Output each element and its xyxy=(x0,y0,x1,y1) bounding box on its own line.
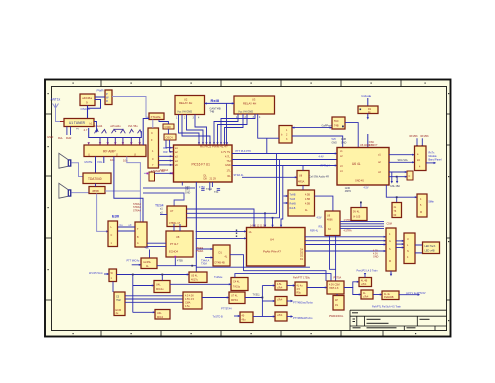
junction dots PA mesh xyxy=(264,212,273,218)
svg-text:4017u: 4017u xyxy=(191,279,199,282)
wire W1 to audio rail xyxy=(117,274,190,276)
svg-text:GND: GND xyxy=(185,191,191,194)
diode pair D5 D6 xyxy=(130,129,142,133)
svg-text:PTT4BGradTurbo: PTT4BGradTurbo xyxy=(293,301,313,304)
wires relay K1 pins to MCU xyxy=(179,115,207,146)
wire U29 out to column xyxy=(253,316,262,318)
wire left rail junction xyxy=(144,172,149,174)
audio amp U4 TDA7040 xyxy=(83,173,111,184)
svg-text:PTT MIC4u: PTT MIC4u xyxy=(127,260,140,263)
svg-text:Cell SW Audio 4R: Cell SW Audio 4R xyxy=(309,176,329,179)
svg-text:PIC16 F7 U1: PIC16 F7 U1 xyxy=(192,163,211,167)
capacitor C4 box xyxy=(149,172,155,181)
wire osc to tuner xyxy=(87,106,89,119)
svg-text:PWM4ODUL: PWM4ODUL xyxy=(329,315,344,318)
relay K1 xyxy=(175,96,205,115)
zone tick marks left xyxy=(45,114,52,300)
diode pair D3 D4 xyxy=(112,129,126,133)
svg-text:GND: GND xyxy=(47,135,53,139)
wire buffer to VCO xyxy=(292,127,332,129)
wire purple rails under MCU xyxy=(143,187,195,189)
svg-text:GND: GND xyxy=(341,142,347,145)
divider U11 xyxy=(288,190,315,216)
wire Q4 out xyxy=(399,294,418,296)
wires into PA left pins xyxy=(196,231,247,238)
pin arrowheads on RF amp xyxy=(88,142,141,145)
svg-text:U4: U4 xyxy=(270,238,274,242)
wire TA31 top to bus xyxy=(235,274,331,281)
junction dot xyxy=(147,173,149,175)
svg-text:DT4B 4B: DT4B 4B xyxy=(215,262,225,265)
svg-text:4R5A: 4R5A xyxy=(298,181,305,184)
svg-text:T4B: T4B xyxy=(210,110,215,114)
svg-text:mic45L: mic45L xyxy=(143,261,152,264)
wires PLL right to C block xyxy=(389,172,407,177)
gate G2 xyxy=(275,297,287,306)
wire antenna to tuner xyxy=(56,109,64,122)
filter U5 xyxy=(89,187,105,194)
svg-text:M: M xyxy=(389,260,391,263)
regulator U31 xyxy=(327,281,344,294)
wire U-osc to pwr xyxy=(95,96,105,98)
svg-text:14 13 12 11 10: 14 13 12 11 10 xyxy=(250,225,266,228)
pin arrows tuner left xyxy=(60,121,64,123)
wire speaker2 to U4 xyxy=(71,192,89,194)
svg-text:RxIII: RxIII xyxy=(211,98,219,103)
power switch Q4 xyxy=(382,291,399,300)
wire vertical drop C to PA xyxy=(281,166,283,228)
svg-text:Vcc VH GND: Vcc VH GND xyxy=(177,110,192,114)
crystal Y1 box xyxy=(149,113,164,120)
svg-text:R5u: R5u xyxy=(297,292,302,295)
wire module out xyxy=(426,162,434,164)
svg-text:21 29: 21 29 xyxy=(210,178,217,181)
svg-text:RFVRb: RFVRb xyxy=(410,135,419,138)
svg-text:R5R 4L: R5R 4L xyxy=(310,230,319,233)
svg-text:R5L: R5L xyxy=(319,226,324,229)
svg-text:4Bu: 4Bu xyxy=(145,247,150,250)
svg-text:u7b4: u7b4 xyxy=(277,299,283,302)
speaker LS1 xyxy=(59,153,68,168)
svg-text:TxSTD B: TxSTD B xyxy=(213,315,223,318)
compressor U26 xyxy=(183,292,202,309)
wire driver bottom stub xyxy=(390,271,392,275)
svg-text:7M2: 7M2 xyxy=(116,299,121,302)
svg-text:U4L: U4L xyxy=(156,284,161,287)
svg-text:STRA4: STRA4 xyxy=(160,169,169,172)
wire U23 top pin xyxy=(161,275,163,281)
svg-text:U4L: U4L xyxy=(157,312,162,315)
svg-text:U6 4L: U6 4L xyxy=(352,162,361,166)
buffer U13 xyxy=(279,126,292,144)
wire U5 down to E30 box xyxy=(97,194,107,232)
svg-text:U5 4L: U5 4L xyxy=(191,275,198,278)
wire U30 to U31 xyxy=(307,287,327,289)
svg-text:U7 4L: U7 4L xyxy=(231,295,238,298)
svg-text:u7b4: u7b4 xyxy=(277,314,283,317)
regulator U20 Vr105 xyxy=(351,208,367,221)
regulator U17 7660 xyxy=(392,203,402,218)
wire MCU highway 3 xyxy=(232,165,361,167)
svg-text:Include: Include xyxy=(362,94,372,98)
wires PLL right to RxTx module xyxy=(389,155,415,163)
svg-text:RFPLL4: RFPLL4 xyxy=(321,165,331,168)
inner border frame xyxy=(52,87,447,331)
resistor R2 box xyxy=(358,106,378,114)
wire osc feedback loop xyxy=(88,100,101,109)
relay driver U21 tall box xyxy=(404,233,415,264)
regulator U30 xyxy=(295,282,307,296)
svg-text:U: U xyxy=(407,238,409,241)
svg-text:GND: GND xyxy=(332,142,338,145)
wire vertical drop A to PA xyxy=(265,154,277,228)
mic amp U22 xyxy=(141,258,157,269)
junction dot xyxy=(172,172,174,174)
wire limiter to switch column xyxy=(245,297,262,299)
svg-text:U7: U7 xyxy=(170,209,174,213)
svg-text:PaAb PAe A?: PaAb PAe A? xyxy=(263,250,281,254)
svg-text:4.5V: 4.5V xyxy=(364,187,369,190)
gate output arrows xyxy=(287,286,295,317)
wire MCU to audio switch xyxy=(242,176,297,178)
svg-text:4V1 55u: 4V1 55u xyxy=(128,124,138,128)
filter FL1 tall box xyxy=(135,222,147,247)
modulator U9 DT xyxy=(213,245,230,266)
svg-text:U8: U8 xyxy=(176,235,180,239)
wire into W1 xyxy=(104,273,109,275)
svg-text:2A: 2A xyxy=(417,159,420,162)
wires 4066 bottom xyxy=(330,236,336,282)
svg-text:P: P xyxy=(106,92,108,96)
svg-text:TX511: TX511 xyxy=(253,294,261,297)
wires column to gates xyxy=(262,286,275,317)
svg-text:4S: 4S xyxy=(335,304,338,307)
wire TDA to U5 xyxy=(95,184,97,187)
svg-text:4066: 4066 xyxy=(327,219,333,222)
svg-text:4.5B: 4.5B xyxy=(305,194,310,197)
svg-text:Rx PIC5 PWM 4L 4?: Rx PIC5 PWM 4L 4? xyxy=(200,145,228,149)
svg-text:u47uH4u: u47uH4u xyxy=(110,124,121,128)
svg-text:4.7V 7S: 4.7V 7S xyxy=(221,151,230,154)
svg-text:TX4A: TX4A xyxy=(206,188,212,191)
wires U7 right to PA top pins xyxy=(187,209,273,228)
wires OSC to MCU xyxy=(166,140,174,148)
wire stubs to ground under C5 wires xyxy=(392,172,397,182)
vco U14 xyxy=(332,117,345,129)
svg-text:RxR: RxR xyxy=(66,136,71,140)
zone number dots xyxy=(48,83,450,335)
svg-text:OSC4: OSC4 xyxy=(166,136,174,140)
svg-text:C: C xyxy=(111,234,113,237)
microcontroller U1 PIC16F73 xyxy=(174,145,233,182)
wire U10 top xyxy=(302,166,304,171)
svg-text:RxLB: RxLB xyxy=(290,207,296,210)
svg-text:4TB4L 17: 4TB4L 17 xyxy=(169,221,181,225)
wires to DT box xyxy=(196,249,213,258)
modulator U32 xyxy=(333,296,344,311)
svg-text:4558: 4558 xyxy=(92,189,99,193)
U8 bottom pin xyxy=(174,257,176,266)
wire switch column vertical xyxy=(261,286,263,317)
svg-text:u7b4: u7b4 xyxy=(361,283,367,286)
tuner U2 xyxy=(64,119,94,127)
preemphasis U23 xyxy=(154,281,170,293)
svg-text:PwrUP2 L4.5 Train: PwrUP2 L4.5 Train xyxy=(357,270,379,273)
capacitor C1 box xyxy=(105,90,112,105)
svg-text:C4 4L: C4 4L xyxy=(233,281,240,284)
svg-text:GNL 4Bd: GNL 4Bd xyxy=(390,185,400,188)
wire into mic amp xyxy=(132,264,141,266)
op-amp U10 LM358 xyxy=(297,171,309,186)
wire include down xyxy=(367,98,369,106)
wire tuner out to RF amp xyxy=(94,122,97,132)
LED board xyxy=(423,242,440,254)
svg-text:4.5B: 4.5B xyxy=(305,198,310,201)
svg-text:7805 4.8: 7805 4.8 xyxy=(329,287,339,290)
svg-text:MIC4u: MIC4u xyxy=(156,288,164,291)
svg-text:STRA 4L: STRA 4L xyxy=(234,174,245,177)
oscillator box xyxy=(164,134,176,140)
svg-text:RELAY 4H: RELAY 4H xyxy=(243,102,256,106)
svg-text:4.7: 4.7 xyxy=(84,128,88,132)
svg-text:4.5TRA: 4.5TRA xyxy=(344,230,353,233)
wire DT bus to reg xyxy=(244,271,327,281)
wires L1 to FL1 xyxy=(118,227,135,231)
svg-text:ECHO4: ECHO4 xyxy=(169,250,178,254)
diode pair D1 D2 xyxy=(95,129,107,133)
zone tick marks right xyxy=(447,114,451,300)
IF filter U6 tall box xyxy=(148,128,159,168)
wire Vr105 top xyxy=(360,202,362,208)
wire branch to 7660 xyxy=(396,197,398,202)
wires RFVRb into module xyxy=(417,138,422,146)
svg-text:4MHz: 4MHz xyxy=(345,190,352,193)
wire RF amp pin to TBA purple xyxy=(127,157,141,223)
svg-text:PaAM4B: PaAM4B xyxy=(384,296,394,299)
wire preemph to TA31 xyxy=(170,283,231,285)
svg-text:46u: 46u xyxy=(242,319,247,322)
svg-text:PWRA: PWRA xyxy=(196,250,204,253)
driver Q2 xyxy=(359,278,372,287)
counter U25 4017 xyxy=(189,272,207,282)
svg-text:N: N xyxy=(407,250,409,253)
pll U15 LMX1600 xyxy=(337,148,389,186)
svg-text:PTT PLK PTK: PTT PLK PTK xyxy=(236,150,252,153)
svg-text:PTT5TA4: PTT5TA4 xyxy=(221,308,232,311)
wire R2 down arrow xyxy=(367,114,369,119)
svg-text:u4046a: u4046a xyxy=(82,96,92,100)
wire mic out along bottom xyxy=(157,265,196,267)
wire xtal left to RF amp xyxy=(143,119,149,146)
svg-text:10u: 10u xyxy=(123,159,128,163)
svg-text:p4.5 V ke4PTL5V: p4.5 V ke4PTL5V xyxy=(406,292,426,295)
wire U7 left stub xyxy=(160,214,167,216)
capacitor C5 box xyxy=(407,171,413,180)
resistor R1 box xyxy=(80,94,95,106)
wire W1 down to ECM xyxy=(112,282,114,293)
wires relay K2 pins to MCU xyxy=(214,114,267,145)
wire PLL bottom to 5Min box xyxy=(386,185,417,197)
wires bus to RF amp top pins xyxy=(100,138,140,145)
wire diode bus xyxy=(89,128,142,138)
capacitor C2 box xyxy=(163,124,174,129)
svg-text:W1 R5 5mm: W1 R5 5mm xyxy=(89,272,103,275)
wire MCU to PLL highway 1 xyxy=(232,153,337,155)
svg-text:P5T5A: P5T5A xyxy=(334,277,342,280)
wire MCU to PLL highway 2 xyxy=(232,159,337,161)
svg-text:OSC8L: OSC8L xyxy=(81,107,91,111)
svg-text:RF AMP: RF AMP xyxy=(103,149,116,153)
svg-text:PaAPTL Pal 5uA 4.5 Train: PaAPTL Pal 5uA 4.5 Train xyxy=(372,305,402,308)
svg-text:PT 4L7: PT 4L7 xyxy=(170,242,179,246)
svg-text:17L: 17L xyxy=(227,170,232,173)
svg-text:GaPPwr4: GaPPwr4 xyxy=(322,125,333,128)
svg-text:GND 4S: GND 4S xyxy=(355,180,364,183)
svg-text:E30: E30 xyxy=(112,214,120,219)
wires U6 right to MCU xyxy=(159,156,174,165)
wire pwr rail (purple) xyxy=(112,97,149,118)
svg-text:5V0: 5V0 xyxy=(334,120,339,123)
wire relay drop to highway xyxy=(266,138,268,153)
svg-text:TA31u: TA31u xyxy=(233,286,241,289)
analog switch U19 4066 xyxy=(325,211,340,236)
rf module U16 RxTx xyxy=(415,146,427,171)
svg-text:PWR: PWR xyxy=(97,89,105,93)
amplifier U3 RF AMP xyxy=(84,145,146,157)
wire vertical drop B to PA xyxy=(273,160,280,228)
svg-text:1750: 1750 xyxy=(199,185,205,189)
limiter U27 xyxy=(229,292,245,304)
wire speaker1 to TDA xyxy=(71,163,83,177)
svg-text:7SJ: 7SJ xyxy=(227,160,232,163)
wire TCXO into PLL xyxy=(367,134,369,148)
svg-text:C: C xyxy=(151,131,153,135)
svg-text:RxL: RxL xyxy=(58,136,63,140)
modulator U28 TA31 xyxy=(231,278,248,291)
svg-text:GND: GND xyxy=(225,164,231,167)
wire RF amp pin to TBA blue xyxy=(114,157,143,223)
svg-text:PTT4BStd4Turbo: PTT4BStd4Turbo xyxy=(293,317,313,320)
svg-text:4.5B: 4.5B xyxy=(305,203,310,206)
wire under PA xyxy=(196,266,310,268)
wire into U29 xyxy=(234,315,240,317)
svg-text:R: R xyxy=(106,99,108,103)
svg-text:5V 4L: 5V 4L xyxy=(353,211,360,214)
zone tick marks bottom xyxy=(101,331,383,337)
svg-text:M: M xyxy=(420,211,422,214)
tone box U24 xyxy=(155,310,170,320)
svg-text:C330: C330 xyxy=(165,125,172,129)
delay U8 PT2399 xyxy=(166,231,193,257)
svg-text:1A: 1A xyxy=(249,231,252,234)
wire compressor to limiter xyxy=(202,297,229,299)
tuner bottom pins xyxy=(67,127,71,136)
pin arrowheads MCU top xyxy=(198,142,228,144)
svg-text:RELAY 4H: RELAY 4H xyxy=(179,101,192,105)
svg-text:TX4: TX4 xyxy=(214,191,219,194)
wire mid rail down xyxy=(132,275,134,313)
gate G3 xyxy=(275,312,287,321)
svg-text:TxMute: TxMute xyxy=(214,276,223,279)
tone encoder U29 xyxy=(240,312,253,323)
antenna ANT1 xyxy=(53,104,59,110)
svg-text:MPX4: MPX4 xyxy=(231,299,238,302)
wire U10 bottom to divider xyxy=(302,186,304,191)
timer U18 xyxy=(417,194,427,217)
svg-text:TxHB: TxHB xyxy=(290,194,296,197)
svg-text:TDA7040: TDA7040 xyxy=(88,177,102,181)
svg-text:C: C xyxy=(409,175,411,178)
wire xtal to C2 xyxy=(159,120,168,125)
svg-text:b5R: b5R xyxy=(163,151,168,154)
driver Q1 tall box xyxy=(386,228,396,271)
zone tick marks top xyxy=(101,80,401,87)
wire buffer out to PLL top xyxy=(292,136,343,148)
svg-text:LED u4B: LED u4B xyxy=(425,249,435,252)
svg-text:STRA4: STRA4 xyxy=(133,209,141,212)
wires 4066 right xyxy=(340,222,384,229)
svg-text:TX5A: TX5A xyxy=(201,263,207,266)
svg-text:PaAPTT 1750u: PaAPTT 1750u xyxy=(293,277,311,280)
power amp module PA U12 xyxy=(247,228,306,267)
wire U5 right purple xyxy=(105,190,140,192)
svg-text:ANT1k: ANT1k xyxy=(51,98,61,102)
title block xyxy=(350,310,447,330)
svg-text:T4B: T4B xyxy=(334,125,339,128)
wires into U8 left xyxy=(147,243,166,246)
wire Q3 to Q4 xyxy=(373,294,382,296)
wire to tone box xyxy=(133,311,155,313)
svg-text:TxLB: TxLB xyxy=(290,198,296,201)
svg-text:4.5uH4: 4.5uH4 xyxy=(94,124,103,128)
wire to preemphasis xyxy=(133,285,154,287)
wire C4 to MCU xyxy=(155,172,174,174)
trimmer W1 xyxy=(109,269,117,282)
wire mic top stub xyxy=(149,250,151,259)
svg-text:5Min: 5Min xyxy=(429,201,435,204)
wire MCU down rail xyxy=(195,182,197,272)
svg-text:Vcc VH GND: Vcc VH GND xyxy=(238,110,253,114)
svg-text:Vr 105: Vr 105 xyxy=(353,216,361,219)
wire C2 to OSC xyxy=(167,129,169,134)
wire buffer bottom left xyxy=(267,137,279,139)
svg-text:Band Panel: Band Panel xyxy=(429,159,442,162)
wires U21 to LED board xyxy=(415,245,422,253)
svg-text:D1: D1 xyxy=(219,251,223,255)
wire pwr into U6 xyxy=(152,120,154,129)
svg-text:RFVRb: RFVRb xyxy=(421,135,430,138)
wires ECM right to compressor xyxy=(125,296,183,303)
relay K2 xyxy=(234,96,275,114)
svg-text:VOL: VOL xyxy=(97,160,103,164)
decoder U7 xyxy=(167,206,187,227)
svg-text:GND: GND xyxy=(373,256,379,259)
wires U7 to U8 xyxy=(174,224,180,231)
MCU bottom wires and caps xyxy=(182,182,220,191)
svg-text:MUTE: MUTE xyxy=(85,160,93,164)
svg-text:RxHB: RxHB xyxy=(290,203,297,206)
pin arrowheads PA top xyxy=(253,225,282,227)
gate G1 xyxy=(275,281,287,290)
coil L1 tall box xyxy=(108,221,118,247)
wire DT out to bus xyxy=(230,255,244,271)
wire VCO right to PLL top xyxy=(345,123,358,148)
wire RxIII drop xyxy=(226,103,228,145)
wires PA right to driver xyxy=(305,237,386,251)
svg-text:4.7L: 4.7L xyxy=(225,155,230,158)
svg-text:4T5B: 4T5B xyxy=(177,260,183,263)
svg-text:u7b4: u7b4 xyxy=(277,287,283,290)
